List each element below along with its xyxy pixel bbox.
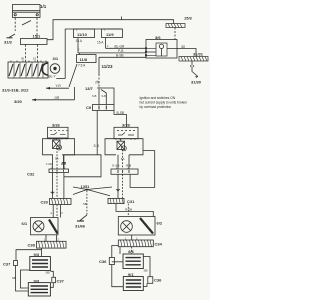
svg-text:C36: C36: [154, 278, 162, 283]
lamp 6/2 headlamp right: [118, 217, 155, 236]
svg-text:3/20: 3/20: [14, 99, 23, 104]
svg-text:3/1: 3/1: [53, 56, 59, 61]
wire P-B: [78, 52, 146, 54]
svg-text:15: 15: [33, 57, 37, 61]
ground 31/3: [7, 34, 16, 38]
wire S-B trunk down: [96, 111, 98, 156]
svg-text:3/6: 3/6: [155, 35, 161, 40]
wire snake right of right column: [130, 151, 155, 188]
connector C33: [50, 199, 72, 205]
svg-text:1/1: 1/1: [40, 4, 47, 9]
svg-text:15 A: 15 A: [76, 39, 83, 43]
svg-text:S-B: S-B: [102, 94, 107, 98]
outer box left lamp unit: [43, 138, 75, 155]
connector C31: [108, 198, 124, 203]
svg-text:C32: C32: [27, 172, 35, 177]
wire BL-Y to ignition: [56, 78, 65, 80]
relay 3/26: [48, 127, 69, 138]
svg-text:15/3: 15/3: [184, 16, 193, 21]
wire 15/1 to 15/3: [47, 20, 174, 40]
svg-text:7.5 A: 7.5 A: [78, 64, 86, 68]
connector box left (C32): [49, 169, 69, 173]
lamp 9/1: [123, 277, 143, 291]
wire dashed 15/3 to 3/6: [174, 28, 176, 40]
svg-text:GR: GR: [55, 96, 60, 100]
fuse 11/8: [77, 55, 97, 63]
wire loop right: [112, 265, 124, 287]
wire B-SB horizontal: [99, 56, 146, 58]
lamp 6/1 headlamp left: [31, 218, 59, 235]
fuse 11/10: [74, 29, 95, 38]
ground star node: [73, 187, 112, 215]
wires bar1 to bar2 left: [52, 173, 54, 199]
connector C36 a: [109, 246, 123, 265]
svg-text:C37: C37: [57, 279, 65, 284]
wires C34 down: [119, 247, 121, 254]
tiny pin number texts: [44, 29, 138, 242]
svg-text:C36: C36: [99, 259, 107, 264]
svg-text:SB: SB: [83, 202, 87, 206]
wire lamp to C34: [131, 235, 133, 240]
svg-text:9/3: 9/3: [34, 252, 40, 257]
wire fuse 11/10 down: [77, 38, 79, 53]
svg-text:P-B: P-B: [118, 49, 123, 53]
connector C9: [93, 105, 115, 111]
svg-text:31/66: 31/66: [75, 224, 86, 229]
connector 15/3 (hatched bar): [166, 24, 185, 28]
lamp 8/6: [123, 254, 143, 269]
svg-text:2: 2: [107, 45, 109, 48]
note text block: [140, 96, 188, 109]
svg-text:31/31: 31/31: [193, 52, 204, 57]
svg-text:C37: C37: [3, 261, 11, 266]
pin fuse 11/8 top: [79, 53, 81, 55]
svg-text:b: b: [62, 212, 64, 215]
wire down to junction 13/7: [98, 57, 100, 74]
connector C38: [37, 241, 67, 248]
svg-text:11/8: 11/8: [80, 57, 88, 62]
connector C37 a: [14, 250, 42, 291]
svg-text:Y-R: Y-R: [56, 84, 62, 88]
outer box right lamp unit: [105, 139, 143, 155]
connector C36 b: [143, 257, 153, 287]
lamp 9/3 a: [30, 257, 51, 271]
svg-text:by overload protection: by overload protection: [140, 105, 172, 109]
svg-text:C31: C31: [127, 199, 135, 204]
svg-text:11/10: 11/10: [77, 32, 88, 37]
svg-text:31/3: 31/3: [4, 40, 13, 45]
svg-text:S-B: S-B: [92, 94, 97, 98]
wire loop left: [20, 270, 29, 288]
relay 3/6: [145, 40, 177, 59]
svg-text:3/26: 3/26: [52, 122, 61, 127]
wire diagonal from fuse 11/8: [69, 64, 77, 87]
svg-text:C9: C9: [86, 105, 92, 110]
svg-text:6/1: 6/1: [22, 221, 28, 226]
junction 13/7: [97, 88, 114, 105]
wire vertical to 3/20 line: [74, 87, 76, 100]
svg-text:B-SB: B-SB: [116, 54, 123, 58]
wire dashed 15/1 to ignition pin b: [37, 45, 39, 62]
svg-text:C38: C38: [28, 243, 36, 248]
wire dashed from 1/1 right terminal: [36, 18, 38, 39]
connector 15/1: [21, 39, 48, 45]
svg-text:11/9: 11/9: [106, 32, 114, 37]
svg-text:C34: C34: [155, 242, 163, 247]
svg-text:B-SB: B-SB: [117, 111, 124, 115]
svg-text:3/28: 3/28: [122, 122, 131, 127]
svg-text:SB: SB: [144, 269, 148, 273]
svg-text:6/2: 6/2: [157, 221, 163, 226]
svg-text:but current supply to units br: but current supply to units broken: [140, 101, 188, 105]
fuse bus wire: [65, 29, 121, 79]
svg-text:8/6: 8/6: [128, 249, 134, 254]
svg-text:a: a: [51, 212, 53, 215]
svg-text:BL-GR: BL-GR: [115, 45, 125, 49]
connector C34: [118, 240, 153, 247]
svg-text:2: 2: [78, 49, 80, 52]
wires lamp to C38: [45, 235, 47, 242]
wires C33 to lamp: [52, 205, 54, 218]
wire dashed 15/1 to ignition pin a: [25, 45, 27, 62]
ground symbol 31/66: [77, 215, 87, 221]
wire BL-GR: [106, 47, 147, 49]
svg-text:11/23: 11/23: [102, 64, 114, 69]
svg-text:31/30: 31/30: [191, 80, 202, 85]
wire arrow 3/20: [32, 99, 75, 101]
junction tick on top wire: [121, 17, 123, 20]
svg-text:9/3: 9/3: [34, 278, 40, 283]
wire arrow 31/3-31B: [46, 87, 69, 89]
ignition switch 3/1: [8, 61, 60, 79]
relay 3/28: [114, 127, 138, 138]
svg-text:Ignition and switches ON: Ignition and switches ON: [140, 96, 176, 100]
wire big box edge to C33: [63, 177, 65, 199]
wires outer box to bar right: [117, 155, 119, 169]
svg-text:5A: 5A: [55, 157, 59, 161]
lamp 9/3 b: [28, 283, 50, 296]
svg-text:5A: 5A: [121, 157, 125, 161]
wire B-SB to relay 3/28: [114, 111, 127, 128]
relay 1/1: [13, 5, 41, 26]
svg-text:30: 30: [21, 57, 25, 61]
fuse 11/9: [102, 29, 123, 38]
svg-text:15 A: 15 A: [97, 41, 104, 45]
svg-text:15/1: 15/1: [33, 34, 42, 39]
connector C37 b: [50, 271, 55, 287]
svg-text:30: 30: [181, 45, 185, 49]
ground bar 31/31 (hatched): [179, 57, 208, 62]
wire dashed from 1/1 left terminal: [14, 18, 16, 31]
wires outer box to connector: [52, 155, 54, 169]
big box 1/351 loop: [62, 155, 101, 177]
svg-text:SB: SB: [46, 271, 50, 275]
wires into lamp right: [127, 204, 129, 217]
svg-text:13/7: 13/7: [85, 86, 94, 91]
connector bar right col: [111, 169, 138, 174]
wires bar to C31: [117, 174, 119, 198]
svg-text:9/1: 9/1: [128, 272, 134, 277]
wire 30 from 3/6: [177, 49, 196, 57]
svg-text:S-B: S-B: [94, 144, 99, 148]
svg-text:SB: SB: [12, 276, 16, 280]
svg-text:31/3-31B, 3/22: 31/3-31B, 3/22: [2, 88, 29, 93]
wire R-SB: [116, 204, 153, 217]
wire C38 to lamp: [41, 248, 43, 256]
svg-text:C33: C33: [41, 200, 49, 205]
wire fuse 11/9 down: [105, 38, 107, 49]
switch to ground 31/30: [190, 61, 198, 78]
svg-text:BL-Y: BL-Y: [49, 75, 57, 79]
